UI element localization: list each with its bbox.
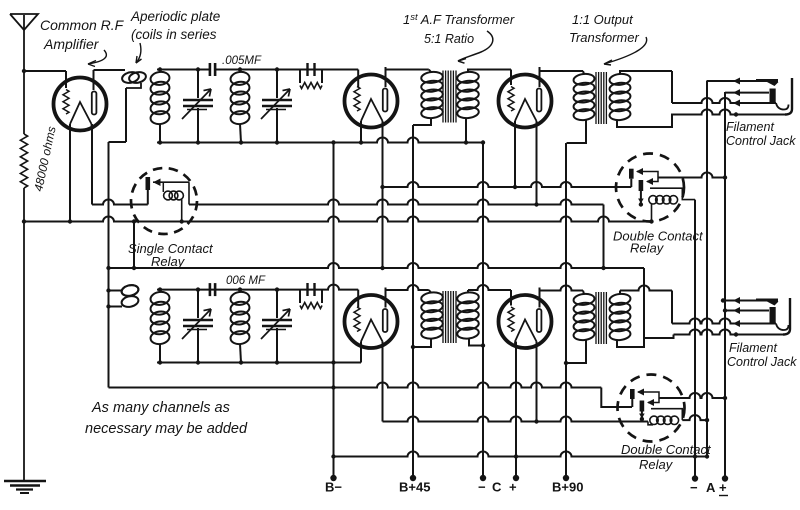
wire T3 sec to V5 grid <box>468 285 511 306</box>
wire V5 filament right <box>534 342 538 424</box>
svg-text:−: − <box>478 480 486 495</box>
transformer T3 primary <box>411 291 444 349</box>
wire V4 filament left <box>360 342 362 363</box>
relay K3 coil <box>650 409 709 425</box>
label Double Contact Relay upper <box>613 229 704 256</box>
wire jack J1 tip lead <box>706 81 708 457</box>
relay K3 arrows <box>637 389 659 407</box>
wire V2 filament left <box>359 121 363 145</box>
terminal A <box>690 475 728 495</box>
relay K1 contact <box>146 177 151 205</box>
wire bus B plus feed <box>380 121 631 270</box>
terminal B minus <box>325 363 342 495</box>
tube V4 <box>345 295 398 348</box>
wire K2 to jack <box>658 173 727 180</box>
wire T4 sec top to J2 <box>620 286 672 324</box>
relay K2 coil <box>649 188 695 224</box>
label 006MF <box>226 275 266 287</box>
wire T2 sec bottom to J1 <box>617 115 672 128</box>
coil L6 <box>230 287 251 364</box>
svg-text:1st A.F Transformer: 1st A.F Transformer <box>403 12 515 27</box>
transformer T4 core <box>596 292 606 344</box>
wire T4 sec bottom to J2 <box>617 335 674 348</box>
relay K2 contact 2 <box>638 180 644 207</box>
label .005MF <box>222 55 262 67</box>
jack J1 line1 <box>707 78 779 87</box>
wire V5 filament left <box>514 342 518 479</box>
label Single Contact Relay <box>128 241 214 269</box>
wire bus common <box>331 452 709 459</box>
jack J1 frame <box>785 78 792 115</box>
capacitor C2 .005MF <box>210 63 215 76</box>
svg-text:Double Contact: Double Contact <box>621 442 712 457</box>
relay K3 contact 2 <box>639 401 645 422</box>
label Aperiodic plate coils in series <box>130 9 220 63</box>
relay K1 coil <box>163 182 184 224</box>
tube V1 <box>54 78 107 131</box>
transformer T1 primary <box>413 71 443 125</box>
relay K1 circle <box>131 168 197 234</box>
capacitor C6 006MF <box>210 283 215 296</box>
svg-text:Amplifier: Amplifier <box>43 36 100 52</box>
wire bus tuned return ch2 <box>157 360 361 364</box>
terminal B plus 45 <box>399 125 430 495</box>
svg-text:Filament: Filament <box>729 341 777 355</box>
relay K2 contact 1 <box>629 169 634 187</box>
wire V3 plate to T2 <box>540 67 585 87</box>
svg-text:Common R.F: Common R.F <box>40 17 125 33</box>
svg-text:006 MF: 006 MF <box>226 275 266 287</box>
svg-text:Transformer: Transformer <box>569 30 639 45</box>
svg-text:B−: B− <box>325 480 342 495</box>
label 48000 ohms <box>31 125 58 193</box>
svg-text:A: A <box>706 480 716 495</box>
jack J2 line4 <box>674 330 785 337</box>
jack J2 line3 <box>672 319 789 330</box>
tube V3 <box>499 75 552 128</box>
wire T2 sec top to J1 <box>620 71 672 103</box>
coil L2 <box>150 67 171 144</box>
svg-text:Relay: Relay <box>151 254 186 269</box>
variable capacitor C3 <box>261 67 292 144</box>
antenna <box>10 14 38 71</box>
coil L3 <box>230 67 251 144</box>
wire V5 plate to T4 <box>540 286 585 308</box>
variable capacitor C1 <box>182 67 213 144</box>
wire jack J1 line2 lead <box>724 92 726 479</box>
svg-text:(coils in series: (coils in series <box>131 27 217 42</box>
transformer T4 secondary <box>609 293 631 341</box>
svg-text:5:1 Ratio: 5:1 Ratio <box>424 32 474 46</box>
svg-text:1:1 Output: 1:1 Output <box>572 12 634 27</box>
transformer T2 primary <box>567 73 596 143</box>
svg-text:Filament: Filament <box>726 120 774 134</box>
svg-text:C: C <box>492 480 502 495</box>
resistor R1 48000 ohms <box>20 134 27 188</box>
wire to ground <box>23 188 25 481</box>
wire stub <box>132 222 136 271</box>
grid condenser C4 leak R2 <box>300 63 322 89</box>
wire L1 return <box>109 83 142 388</box>
ground <box>4 481 46 493</box>
tube V2 <box>345 75 398 128</box>
svg-text:B+45: B+45 <box>399 480 430 495</box>
svg-text:B+90: B+90 <box>552 480 583 495</box>
svg-text:As many channels as: As many channels as <box>91 400 230 416</box>
svg-text:Relay: Relay <box>630 241 665 256</box>
transformer T1 secondary <box>457 71 480 145</box>
terminal C <box>478 143 519 495</box>
wire grid rail ch1 <box>157 70 358 88</box>
label Filament Control Jack upper <box>726 120 796 148</box>
jack J1 line4 <box>671 110 785 117</box>
svg-text:+: + <box>509 480 517 495</box>
jack J2 line2 <box>723 307 776 323</box>
tube V5 <box>499 295 552 348</box>
label Double Contact Relay lower <box>621 442 712 472</box>
wire V4 plate to T3 <box>386 285 432 308</box>
svg-text:necessary may be added: necessary may be added <box>85 421 248 437</box>
grid condenser C8 leak R3 <box>300 283 322 309</box>
svg-text:Control Jack: Control Jack <box>727 355 797 369</box>
wire T1 sec to V3 grid <box>468 70 511 86</box>
wire V3 filament left <box>513 121 517 189</box>
transformer T4 primary <box>564 293 595 365</box>
jack J2 frame <box>783 298 790 335</box>
transformer T2 core <box>596 72 606 124</box>
wire bus filament ch1 b <box>22 217 652 224</box>
wire filament bus ch1 <box>157 138 485 145</box>
wire bus b <box>334 383 633 408</box>
jack J1 line2 <box>725 89 776 105</box>
wire V1 filament left <box>69 124 71 222</box>
relay K2 arrows <box>636 168 658 185</box>
wire grid rail ch2 <box>157 285 358 307</box>
jack J2 line1 <box>721 297 779 306</box>
svg-text:Control Jack: Control Jack <box>726 134 796 148</box>
relay K2 circle <box>616 154 684 222</box>
svg-text:−: − <box>690 480 698 495</box>
wire antenna to V1 grid <box>24 71 66 88</box>
transformer T2 secondary <box>609 73 631 121</box>
jack J1 line3 <box>672 98 789 110</box>
coil L5 <box>150 287 171 364</box>
wire V2 plate to T1 <box>386 67 432 87</box>
label Filament Control Jack lower <box>727 341 797 369</box>
label Common R F Amplifier <box>40 17 125 67</box>
svg-text:+: + <box>719 480 727 495</box>
variable capacitor C5 <box>182 287 213 364</box>
transformer T3 secondary <box>457 291 486 347</box>
label as many channels <box>85 400 248 437</box>
wire bus filament ch1 a <box>92 200 604 269</box>
wire V1 plate to L1 <box>94 70 126 90</box>
transformer T1 core <box>443 71 456 123</box>
coil L4 aperiodic <box>106 284 139 309</box>
relay K3 contact 1 <box>630 389 635 407</box>
wire bus c <box>383 417 654 425</box>
label 1st AF Transformer <box>403 12 515 63</box>
wire V4 filament right <box>382 342 384 422</box>
svg-text:.005MF: .005MF <box>222 55 262 67</box>
transformer T3 core <box>443 291 456 343</box>
svg-text:Relay: Relay <box>639 457 674 472</box>
wire bus aperiodic feed <box>106 263 644 338</box>
wire antenna lead <box>22 69 26 134</box>
svg-text:Aperiodic plate: Aperiodic plate <box>130 9 220 24</box>
wire bus frame ch2 <box>109 385 336 389</box>
wire V1 filament right <box>91 124 93 205</box>
wire A minus lead <box>694 200 696 479</box>
coil L1 aperiodic <box>121 71 147 85</box>
variable capacitor C7 <box>261 287 292 364</box>
relay K3 circle <box>618 375 685 442</box>
relay K1 armature arrow <box>153 178 189 204</box>
wire K3 to jack <box>659 393 727 400</box>
label 1:1 Output Transformer <box>569 12 647 65</box>
wire V3 filament right <box>536 121 538 205</box>
terminal B plus 90 <box>552 143 583 495</box>
wire B minus riser <box>333 143 335 363</box>
